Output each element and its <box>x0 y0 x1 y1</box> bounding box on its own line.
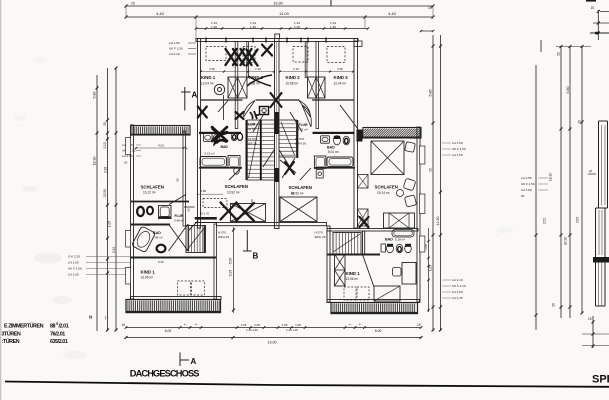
svg-text:15: 15 <box>588 317 592 321</box>
right building wall lower <box>595 263 597 307</box>
right wing BAD left wall <box>363 231 365 255</box>
svg-text:| i: | i <box>105 315 108 320</box>
svg-text:WFH 26: WFH 26 <box>315 235 326 239</box>
svg-text:3.05: 3.05 <box>576 217 580 223</box>
unit1 wall stub <box>247 42 249 78</box>
right wing bottom wall <box>327 300 420 303</box>
svg-text:19.90: 19.90 <box>268 341 277 345</box>
left wing WC toilet <box>137 207 144 216</box>
right wing desk <box>402 263 416 285</box>
unit2 small box fixture <box>316 170 323 179</box>
dashed boxes right wing kind1 <box>344 287 356 300</box>
right wing X-bed <box>371 141 404 175</box>
svg-text:18.30: 18.30 <box>549 173 553 182</box>
svg-text:1.45: 1.45 <box>250 25 256 29</box>
svg-text:5.80: 5.80 <box>93 92 97 99</box>
svg-text:7.45 m²: 7.45 m² <box>153 236 163 240</box>
unit2 stair (single flight) <box>279 120 297 157</box>
unit1 wardrobe niche XX <box>228 77 247 98</box>
svg-text:18 1.70: 18 1.70 <box>200 212 210 216</box>
left wing schlafen dim line <box>136 147 187 149</box>
svg-text:FLUR: FLUR <box>246 123 256 127</box>
left dim ticks <box>96 87 99 90</box>
svg-text:SCHLAFEN: SCHLAFEN <box>289 185 312 190</box>
dashed dresser unit1 schlafen <box>203 199 227 208</box>
svg-text:SCHLAFEN: SCHLAFEN <box>375 185 398 190</box>
svg-text:4.40: 4.40 <box>156 11 165 16</box>
svg-text:1.45 1.45: 1.45 1.45 <box>286 328 298 332</box>
svg-text:5.43: 5.43 <box>158 260 164 264</box>
right wing chair <box>393 268 402 277</box>
right building wall upper <box>598 121 600 208</box>
dashed roof window 4 <box>327 47 345 63</box>
right wing wardrobe small 2 <box>358 209 369 226</box>
scribble dark blob flur1 <box>236 112 244 119</box>
left wing door cross <box>169 224 189 251</box>
svg-text:1.10: 1.10 <box>293 67 299 71</box>
svg-text:6.00: 6.00 <box>165 329 172 333</box>
right wing table <box>374 286 400 301</box>
unit1 bath bottom wall <box>199 167 242 169</box>
svg-text:13.96 m²: 13.96 m² <box>346 277 359 281</box>
svg-text:5.80: 5.80 <box>429 90 433 97</box>
unit1 bidet pair dark <box>231 133 237 141</box>
pen strike over kind2 label <box>247 75 272 86</box>
svg-text:1.05: 1.05 <box>241 323 247 327</box>
svg-text:4.02: 4.02 <box>158 144 164 148</box>
svg-text:BAD: BAD <box>221 145 229 149</box>
svg-text:4.32 m²: 4.32 m² <box>298 128 308 132</box>
left wing corridor wall <box>183 202 186 227</box>
svg-text:11.00: 11.00 <box>279 11 289 16</box>
svg-text:A: A <box>191 357 197 366</box>
svg-text:5.18 m²: 5.18 m² <box>395 238 405 242</box>
svg-text:4.40: 4.40 <box>388 11 397 16</box>
svg-text:UK F 1.50: UK F 1.50 <box>452 147 466 151</box>
svg-text:LH 2.10: LH 2.10 <box>169 52 180 56</box>
svg-text:15: 15 <box>131 2 135 6</box>
svg-text:635/2.01: 635/2.01 <box>50 339 68 345</box>
svg-text:1.80: 1.80 <box>250 199 254 205</box>
right wing: outer right wall <box>417 127 420 302</box>
scan noise blobs <box>34 253 62 263</box>
svg-text:BAD: BAD <box>327 146 335 150</box>
svg-text:1.05: 1.05 <box>254 323 260 327</box>
svg-text:6.25: 6.25 <box>229 270 233 277</box>
svg-text:/2.01: /2.01 <box>59 324 69 330</box>
left wing wall wc/bad <box>131 224 170 226</box>
right dim stub at line3 level <box>421 30 433 32</box>
svg-text:15: 15 <box>122 323 126 327</box>
svg-text:LH 1.50: LH 1.50 <box>521 176 532 180</box>
left wing wall bad/kind1 <box>131 257 216 259</box>
scribble X divider <box>271 93 282 107</box>
dashed boxes left wing kind1 <box>178 281 191 295</box>
bottom dim row1 <box>126 327 233 329</box>
unit2 bath top wall <box>313 132 355 134</box>
right dim ticks <box>432 45 435 48</box>
right building tick mid <box>588 173 596 175</box>
right building lower dim <box>592 316 594 348</box>
svg-text:20: 20 <box>103 122 107 126</box>
svg-text:LH 1.50: LH 1.50 <box>68 261 79 265</box>
svg-text:20: 20 <box>552 303 556 307</box>
svg-text:1.45: 1.45 <box>330 25 336 29</box>
left wing window sills <box>126 138 131 155</box>
svg-text:H 570: H 570 <box>315 231 323 235</box>
svg-text:SCHLAFEN: SCHLAFEN <box>141 185 164 190</box>
svg-text:13.96 m²: 13.96 m² <box>141 276 154 280</box>
unit1 wall KIND1/KIND2 <box>235 42 238 129</box>
svg-text:UK F 1.50: UK F 1.50 <box>521 182 535 186</box>
right wing bed pillows <box>405 142 416 153</box>
window marks on top wall <box>205 38 207 43</box>
svg-text:1.45: 1.45 <box>211 25 217 29</box>
unit1 washbasin <box>204 134 213 142</box>
right wing window sills <box>419 146 425 164</box>
right wing: left wall lower <box>327 226 330 302</box>
section marker B <box>246 230 248 252</box>
svg-text:2.10: 2.10 <box>103 142 107 148</box>
unit2 bath bottom wall <box>314 167 355 169</box>
unit1 WC <box>213 134 220 143</box>
riser from dim to wall corner <box>195 17 197 39</box>
svg-text:5.01 m²: 5.01 m² <box>328 150 339 154</box>
right wing wardrobe small 1 <box>358 175 369 189</box>
unit2 wardrobe niche (XX) <box>308 77 326 98</box>
chimney drop line <box>223 95 225 120</box>
right wing sofa bench X <box>384 213 415 228</box>
section marker A bottom <box>179 353 181 367</box>
interior dim line unit2 <box>280 71 353 73</box>
svg-text:E ZIMMERTÜREN: E ZIMMERTÜREN <box>4 323 44 330</box>
left dimension vertical lines <box>96 75 98 331</box>
svg-text:LH 1.50: LH 1.50 <box>169 41 180 45</box>
scribble X near top <box>262 45 272 56</box>
left wing: outer left wall <box>131 125 134 299</box>
svg-text:12.04 m²: 12.04 m² <box>334 82 347 86</box>
svg-text:20: 20 <box>589 169 593 173</box>
left wing right wall lower <box>214 224 217 299</box>
unit1 bathtub <box>200 157 227 168</box>
right wing BAD tub <box>392 230 414 238</box>
svg-text:1.05: 1.05 <box>295 323 301 327</box>
dashed roof window 3 <box>293 47 308 63</box>
svg-text:LH 1.50: LH 1.50 <box>452 141 463 145</box>
far right ticks <box>556 46 591 48</box>
svg-text:15.92 m²: 15.92 m² <box>291 192 304 196</box>
svg-text:1.05: 1.05 <box>282 323 288 327</box>
unit2 wall stub <box>305 42 307 78</box>
svg-text:6.00: 6.00 <box>375 329 382 333</box>
svg-text:20: 20 <box>429 168 433 172</box>
svg-text:KIND 1: KIND 1 <box>141 270 156 275</box>
right wing wardrobe XX <box>335 254 346 286</box>
door right wing kind1 <box>363 255 375 288</box>
svg-text:BAD: BAD <box>385 238 393 242</box>
section marker A top <box>184 87 186 111</box>
door unit1 flur diagonals <box>253 112 265 132</box>
scribble X left of flur <box>198 107 207 118</box>
svg-text:5.15 m²: 5.15 m² <box>205 152 215 156</box>
far right dim vertical lines <box>535 65 537 330</box>
KIND3 door arc <box>340 105 358 129</box>
courtyard v-dim line <box>233 227 235 313</box>
stairwell side walls <box>246 120 248 180</box>
door unit2 flur diagonals <box>290 112 302 132</box>
svg-text:5.00: 5.00 <box>229 258 233 265</box>
right wing: top balcony <box>363 128 421 139</box>
svg-text:88: 88 <box>50 324 56 330</box>
wing top-left corner wall <box>357 130 363 142</box>
unit1 small oval below shower <box>234 167 240 174</box>
svg-text:5.80: 5.80 <box>566 87 570 94</box>
unit2 shower <box>314 156 326 168</box>
svg-text:15: 15 <box>428 6 432 10</box>
svg-text:LH 1.50: LH 1.50 <box>452 290 463 294</box>
door unit2 schlafen <box>300 168 311 180</box>
right wing wall bad/kind1 <box>327 254 380 256</box>
chimney circle unit1 <box>214 84 224 94</box>
svg-text:13.92 m²: 13.92 m² <box>227 191 240 195</box>
top dimension line 1 (19.90) <box>126 5 433 7</box>
unit1 WC scribble (dark) <box>212 127 227 141</box>
door unit1 kind1 <box>218 101 228 113</box>
svg-text:15: 15 <box>417 323 421 327</box>
svg-text:16.12 m²: 16.12 m² <box>143 191 156 195</box>
svg-text:SPIT: SPIT <box>592 374 609 386</box>
svg-text:LH 1.50: LH 1.50 <box>521 188 532 192</box>
svg-text:3.18: 3.18 <box>104 167 108 173</box>
scribble XXXX top unit1 <box>226 49 237 65</box>
unit2 schlafen bed <box>280 197 317 222</box>
svg-text:2.52: 2.52 <box>112 247 116 253</box>
svg-text:LH 1.50: LH 1.50 <box>452 153 463 157</box>
svg-text:H 570: H 570 <box>218 231 226 235</box>
left wing BAD toilet <box>157 245 166 253</box>
left wing shower <box>159 206 172 219</box>
svg-text:B: B <box>253 252 259 261</box>
svg-text:DACHGESCHOSS: DACHGESCHOSS <box>130 368 199 378</box>
unit1 shower <box>228 156 240 169</box>
svg-text:UK F 1.50: UK F 1.50 <box>68 267 82 271</box>
svg-text:12.50: 12.50 <box>103 189 107 197</box>
right wing dark scribble near door <box>360 217 369 227</box>
bottom border line <box>5 382 609 387</box>
door unit1 schlafen <box>229 168 241 180</box>
top center tick mark <box>330 0 332 6</box>
svg-text:1.10: 1.10 <box>255 67 261 71</box>
svg-text:1.80: 1.80 <box>201 189 207 193</box>
svg-text:2.50: 2.50 <box>337 67 343 71</box>
svg-text:UK F 1.50: UK F 1.50 <box>169 47 183 51</box>
svg-text:1.05: 1.05 <box>424 244 428 250</box>
right wing bottom balcony <box>331 303 418 314</box>
top dimension line 3 (1.34/1.45 x4) <box>196 28 368 30</box>
svg-text:76/2.01: 76/2.01 <box>50 332 65 338</box>
svg-text:15 570: 15 570 <box>295 137 305 141</box>
right wing wall under balcony <box>359 137 418 139</box>
svg-text:FLUR: FLUR <box>299 123 309 127</box>
left page edge line <box>0 0 2 400</box>
svg-text:20: 20 <box>521 194 525 198</box>
right wing seating chairs <box>403 178 416 191</box>
svg-text:19.90: 19.90 <box>273 2 283 6</box>
svg-text:UK F 2.10: UK F 2.10 <box>452 284 466 288</box>
right wing BAD toilet <box>381 244 386 252</box>
svg-text::TÜREN: :TÜREN <box>2 338 20 345</box>
svg-text:BAD: BAD <box>153 231 161 235</box>
right wing stair (treads) <box>333 233 361 255</box>
svg-text:G K 2.20: G K 2.20 <box>68 255 80 259</box>
dashed roof window 2 <box>243 47 255 63</box>
dashed roof window 1 <box>206 47 226 61</box>
svg-text:60: 60 <box>187 208 191 212</box>
unit1 schlafen bed <box>231 204 266 222</box>
svg-text:LH 1.35: LH 1.35 <box>452 296 463 300</box>
svg-text:12.50: 12.50 <box>436 217 440 226</box>
svg-text:LH 1.00: LH 1.00 <box>68 273 79 277</box>
unit1 bath top wall <box>199 132 241 134</box>
svg-text:15: 15 <box>591 6 595 10</box>
left wing wall under balcony <box>131 134 190 136</box>
outer wall: top of central block <box>196 39 358 42</box>
top-right corner dimension (15) <box>586 0 596 2</box>
svg-text:WFH 26: WFH 26 <box>295 142 306 146</box>
knee wall across units <box>201 99 243 101</box>
right wing bad top wall <box>327 229 418 232</box>
svg-text:3TÜREN: 3TÜREN <box>2 331 21 338</box>
bottom dim row2 (19.90) <box>126 337 421 339</box>
outer wall: left of central block <box>198 39 201 229</box>
top-right wall stub <box>354 41 362 47</box>
svg-text:KIND 2: KIND 2 <box>286 75 301 80</box>
unit1 flur appliance box <box>260 107 269 115</box>
door right wing schlafen <box>358 215 369 228</box>
left wing bottom balcony <box>126 300 221 313</box>
left wing WC sink <box>147 207 153 215</box>
svg-text:A: A <box>192 91 198 100</box>
svg-text:19.14 m²: 19.14 m² <box>377 191 390 195</box>
unit2 wall KIND2/KIND3 <box>316 42 319 129</box>
left wing stair (treads) <box>186 226 206 253</box>
svg-text:20: 20 <box>557 52 561 56</box>
unit2 stair door diagonals <box>282 158 295 178</box>
outer wall: right of central block <box>354 39 358 229</box>
top dimension line 2 (4.40 / 11.00 / 4.40) <box>126 16 433 18</box>
svg-text:KIND 1: KIND 1 <box>201 75 216 80</box>
svg-text:SCHLAFEN: SCHLAFEN <box>225 184 248 189</box>
dark pen marks near divider <box>250 111 259 119</box>
svg-text:90: 90 <box>176 178 180 182</box>
svg-text:2.50: 2.50 <box>209 67 215 71</box>
right building dark band <box>593 257 609 263</box>
svg-text:1.05: 1.05 <box>145 223 151 227</box>
right wing side v-dim <box>428 228 430 312</box>
right building wall middle <box>595 208 597 257</box>
door unit1 kind2 <box>244 101 256 118</box>
entry door diagonal left wing <box>189 221 198 230</box>
unit2 bathtub <box>327 157 353 167</box>
left wing bathtub (rotated) <box>132 226 156 253</box>
svg-text:1.45 1.45: 1.45 1.45 <box>246 328 258 332</box>
svg-text:32.50: 32.50 <box>564 237 568 246</box>
scribble X unit2 stair <box>285 162 294 174</box>
svg-text:2.52: 2.52 <box>543 218 547 224</box>
svg-text:WFH 26: WFH 26 <box>218 235 229 239</box>
svg-text:1.05: 1.05 <box>108 221 112 227</box>
left wing: top balcony <box>131 126 190 136</box>
svg-text:3.48 m²: 3.48 m² <box>174 218 184 222</box>
unit2 WC <box>334 136 341 145</box>
unit1 stair (U, two flights) <box>247 120 274 180</box>
interior dim line unit1 <box>201 71 274 73</box>
svg-text:15 570: 15 570 <box>248 137 258 141</box>
left wing schlafen door diagonal <box>169 195 186 205</box>
left wing wall schlafen/wc <box>131 201 189 203</box>
svg-text:KIND 1: KIND 1 <box>346 271 361 276</box>
unit2 washbasin <box>321 136 330 143</box>
svg-text:1.45: 1.45 <box>294 25 300 29</box>
right dim vertical lines <box>432 35 434 331</box>
right wing BAD sinks <box>387 244 394 252</box>
bottom wall of central block <box>217 223 327 226</box>
svg-text:20: 20 <box>578 120 582 124</box>
left wing bottom wall <box>131 297 222 300</box>
left wing right wall upper <box>183 131 186 202</box>
unit divider wall <box>275 39 280 229</box>
block bottom step wall left <box>195 217 217 220</box>
door unit2 kind2 <box>299 101 311 118</box>
chimney bump above top wall <box>275 34 280 39</box>
unit1 bed scribbles <box>221 203 237 220</box>
svg-text:10.68 m²: 10.68 m² <box>286 82 299 86</box>
svg-text:18.90: 18.90 <box>93 157 97 166</box>
svg-text:LH 2.10: LH 2.10 <box>452 278 463 282</box>
svg-text:WF 26: WF 26 <box>248 142 257 146</box>
svg-text:20: 20 <box>124 161 128 165</box>
svg-text:12.04 m²: 12.04 m² <box>201 82 214 86</box>
svg-text:KIND 3: KIND 3 <box>334 75 349 80</box>
unit2 bidet <box>343 136 349 145</box>
